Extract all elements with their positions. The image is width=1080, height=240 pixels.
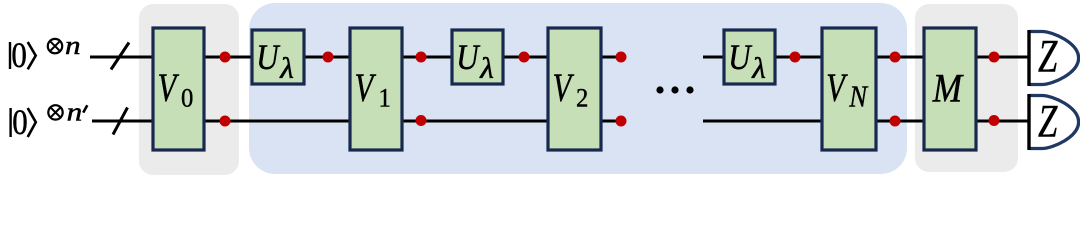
gate M xyxy=(924,28,976,150)
svg-text:0: 0 xyxy=(181,84,193,113)
wire top left segment xyxy=(90,56,624,59)
svg-text:0: 0 xyxy=(12,103,27,143)
ellipsis dots xyxy=(656,86,693,93)
gate U_lambda 2 xyxy=(452,30,503,85)
stage background V0 (gray rounded) xyxy=(139,4,239,175)
measurement Z top xyxy=(1029,29,1079,86)
svg-text:λ: λ xyxy=(279,52,294,85)
junction dot after V2 top xyxy=(616,52,627,63)
wire bottom right segment xyxy=(703,120,1029,123)
junction dot after U_lambda 3 xyxy=(790,52,801,63)
gate VN xyxy=(822,28,876,150)
bus slash top wire xyxy=(111,43,129,70)
svg-text:M: M xyxy=(932,66,965,111)
svg-text:λ: λ xyxy=(479,52,494,85)
junction dot after V0 bottom xyxy=(220,116,231,127)
stage background main (blue rounded) xyxy=(249,3,907,174)
gate U_lambda 1 xyxy=(252,30,304,85)
wire bottom left segment xyxy=(92,120,624,123)
ket label |0>⊗n (top register) xyxy=(10,31,81,75)
svg-text:U: U xyxy=(456,38,481,78)
gate V0 xyxy=(153,28,204,150)
measurement Z bottom xyxy=(1029,94,1079,150)
svg-text:N: N xyxy=(848,80,868,114)
junction dot after M top xyxy=(989,52,1000,63)
svg-text:n: n xyxy=(67,98,83,127)
ket label |0>⊗n' (bottom register) xyxy=(11,98,88,143)
svg-text:0: 0 xyxy=(11,36,26,76)
junction dot after V2 bottom xyxy=(616,116,627,127)
junction dot after VN bottom xyxy=(890,116,901,127)
svg-text:1: 1 xyxy=(379,84,391,113)
junction dot after V1 top xyxy=(416,52,427,63)
junction dot after VN top xyxy=(890,52,901,63)
bus slash bottom wire xyxy=(113,108,128,135)
svg-text:U: U xyxy=(256,38,281,78)
svg-text:Z: Z xyxy=(1038,94,1058,146)
gate V2 xyxy=(548,28,601,150)
svg-text:Z: Z xyxy=(1038,29,1058,81)
junction dot after U_lambda 1 xyxy=(323,52,334,63)
junction dot after V0 top xyxy=(220,52,231,63)
wire top right segment xyxy=(703,56,1029,59)
junction dot after V1 bottom xyxy=(416,115,427,126)
junction dot after M bottom xyxy=(989,115,1000,126)
junction dot after U_lambda 2 xyxy=(519,52,530,63)
svg-text:n: n xyxy=(65,31,81,60)
stage background M (gray rounded) xyxy=(915,4,1018,172)
svg-text:U: U xyxy=(728,38,753,78)
svg-text:λ: λ xyxy=(751,52,766,85)
gate V1 xyxy=(350,28,402,150)
svg-text:2: 2 xyxy=(576,84,588,113)
gate U_lambda 3 xyxy=(724,30,775,85)
